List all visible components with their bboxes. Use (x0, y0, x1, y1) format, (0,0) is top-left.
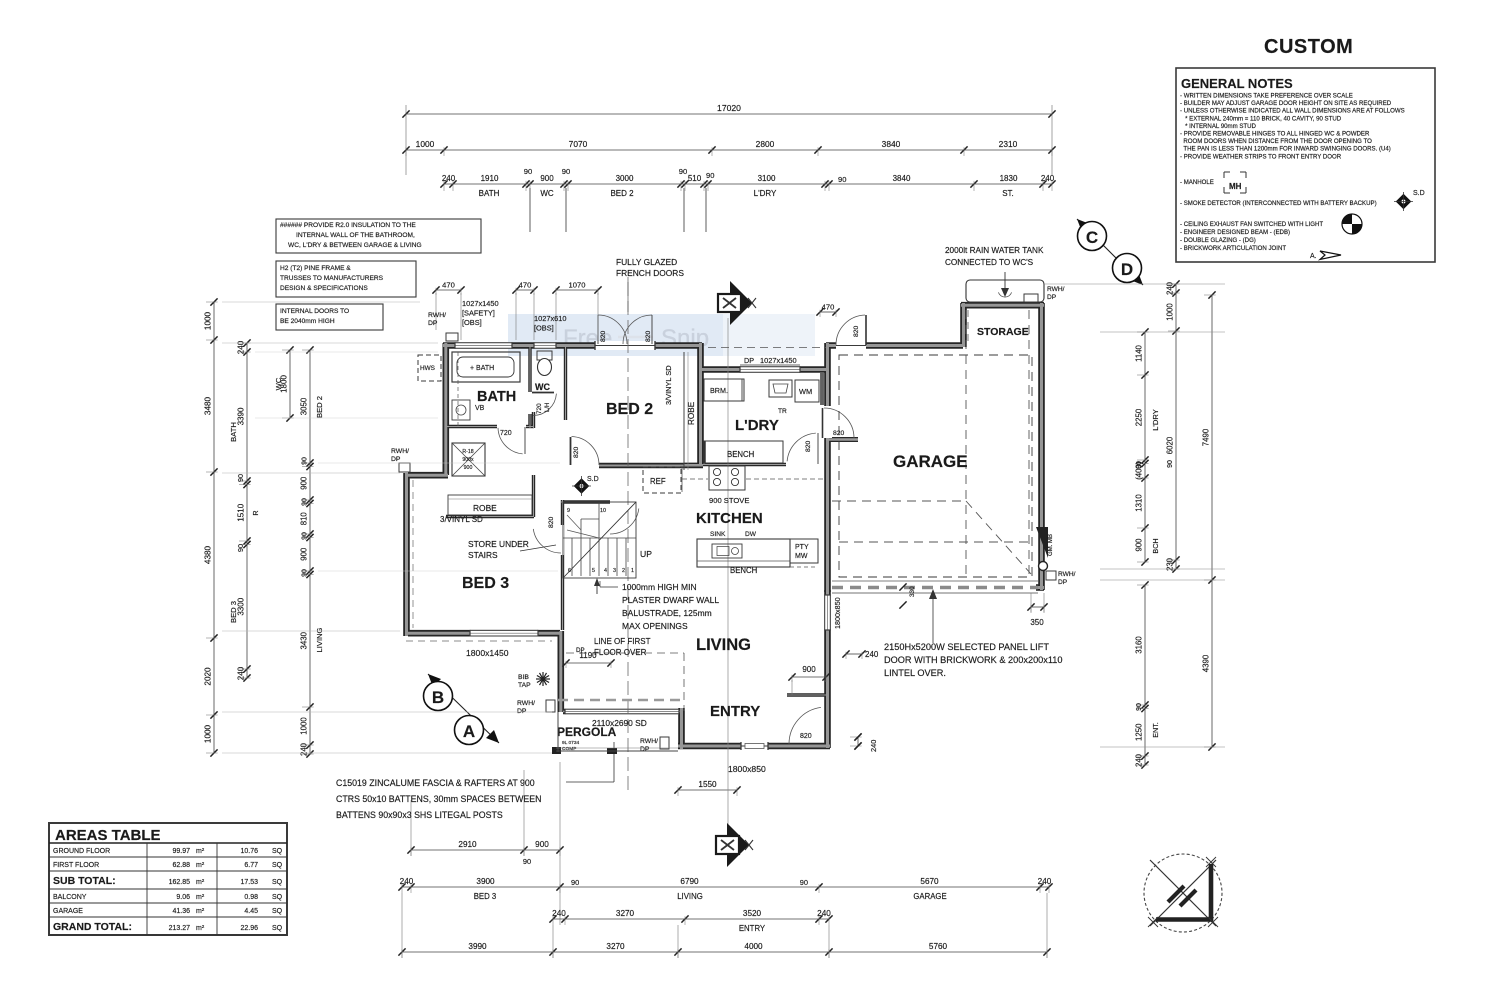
kitchen pantry PTY MW (790, 539, 818, 563)
svg-text:ROBE: ROBE (473, 503, 497, 513)
svg-text:WM: WM (799, 387, 812, 396)
svg-text:10: 10 (600, 508, 606, 514)
svg-text:m²: m² (196, 848, 205, 855)
svg-text:- MANHOLE: - MANHOLE (1180, 179, 1214, 186)
svg-text:BENCH: BENCH (727, 450, 754, 459)
section line vertical through entry (727, 318, 729, 830)
svg-text:1027x610: 1027x610 (534, 314, 566, 323)
svg-text:900: 900 (802, 665, 816, 674)
svg-text:STORAGE: STORAGE (977, 326, 1029, 338)
svg-text:820: 820 (573, 446, 580, 458)
svg-text:[OBS]: [OBS] (534, 324, 554, 333)
svg-text:3840: 3840 (893, 174, 911, 183)
svg-text:1910: 1910 (481, 174, 499, 183)
svg-text:- BUILDER MAY ADJUST GARAGE DO: - BUILDER MAY ADJUST GARAGE DOOR HEIGHT … (1180, 100, 1392, 107)
svg-text:RWH/: RWH/ (640, 738, 658, 745)
entry door opening (741, 742, 768, 750)
svg-text:BENCH: BENCH (730, 566, 757, 575)
dimension 17020 overall top (406, 113, 1052, 115)
svg-text:2250: 2250 (1135, 408, 1144, 426)
svg-text:LIVING: LIVING (696, 636, 751, 654)
svg-text:FULLY GLAZED: FULLY GLAZED (616, 257, 677, 267)
svg-text:1000: 1000 (300, 717, 309, 735)
svg-text:B: B (432, 688, 444, 707)
shower 900x900 (452, 443, 485, 476)
kitchen REF (643, 467, 681, 493)
svg-text:BED 3: BED 3 (474, 892, 497, 901)
svg-text:CUSTOM: CUSTOM (1264, 36, 1353, 58)
bottom dim 3900/6790/5670 BED3 LIVING GARAGE (402, 886, 1049, 888)
svg-text:4390: 4390 (1202, 654, 1211, 672)
svg-text:BATH: BATH (479, 189, 500, 198)
svg-text:CONNECTED TO WC'S: CONNECTED TO WC'S (945, 258, 1034, 267)
svg-text:240: 240 (1135, 753, 1144, 767)
svg-text:4000: 4000 (744, 942, 763, 951)
svg-text:C: C (1086, 228, 1098, 247)
section marker bottom (727, 823, 749, 867)
svg-text:470: 470 (442, 281, 455, 290)
svg-text:BED 2: BED 2 (315, 396, 324, 418)
svg-text:350: 350 (1030, 618, 1044, 627)
svg-text:4.45: 4.45 (244, 908, 258, 915)
svg-text:- PROVIDE WEATHER STRIPS TO FR: - PROVIDE WEATHER STRIPS TO FRONT ENTRY … (1180, 153, 1342, 160)
wall living return stub (443, 342, 702, 349)
svg-text:2110x2690 SD: 2110x2690 SD (592, 718, 647, 728)
svg-text:H2 (T2) PINE FRAME &: H2 (T2) PINE FRAME & (280, 265, 351, 272)
svg-text:1830: 1830 (1000, 174, 1018, 183)
svg-text:90: 90 (523, 857, 531, 866)
svg-text:3160: 3160 (1135, 636, 1144, 654)
svg-text:A: A (463, 722, 475, 741)
svg-text:90: 90 (302, 498, 309, 506)
svg-text:2000lt RAIN WATER TANK: 2000lt RAIN WATER TANK (945, 246, 1044, 255)
svg-text:900: 900 (300, 547, 309, 561)
svg-text:6: 6 (568, 568, 571, 574)
garage meter box (1036, 527, 1048, 558)
svg-text:UP: UP (640, 549, 652, 559)
svg-text:1000: 1000 (1166, 303, 1175, 321)
svg-text:7070: 7070 (569, 139, 588, 149)
svg-text:RWH/: RWH/ (517, 700, 535, 707)
svg-text:m²: m² (196, 862, 205, 869)
svg-text:LINTEL OVER.: LINTEL OVER. (884, 668, 946, 678)
svg-text:5670: 5670 (920, 877, 939, 886)
svg-text:* INTERNAL 90mm STUD: * INTERNAL 90mm STUD (1180, 123, 1257, 130)
svg-text:240: 240 (237, 666, 246, 680)
svg-text:+ BATH: + BATH (470, 365, 494, 372)
svg-text:GRAND TOTAL:: GRAND TOTAL: (53, 921, 132, 933)
left dim chain 3050/90/900/90/810/90/900/90/3430/1000/240 (309, 350, 311, 754)
svg-text:240: 240 (300, 742, 309, 756)
svg-text:1140: 1140 (1135, 344, 1144, 361)
svg-text:720: 720 (536, 403, 543, 414)
svg-text:900: 900 (535, 840, 549, 849)
svg-text:A.: A. (1310, 253, 1317, 260)
svg-text:- DOUBLE GLAZING - (DG): - DOUBLE GLAZING - (DG) (1180, 237, 1256, 244)
svg-text:SINK: SINK (710, 531, 726, 538)
svg-text:90: 90 (1136, 703, 1143, 711)
right dim chain 1140/2250/90/(400)/1310/900 (1144, 332, 1146, 562)
svg-text:R: R (251, 510, 260, 515)
svg-text:22.96: 22.96 (240, 925, 258, 932)
svg-text:213.27: 213.27 (169, 925, 191, 932)
svg-text:1550: 1550 (698, 780, 717, 789)
svg-text:L/H: L/H (545, 403, 551, 412)
svg-text:470: 470 (519, 281, 532, 290)
svg-text:m²: m² (196, 925, 205, 932)
svg-text:GENERAL NOTES: GENERAL NOTES (1181, 76, 1293, 91)
garage panel door line (832, 586, 1038, 589)
svg-text:- SMOKE DETECTOR (INTERCONNECT: - SMOKE DETECTOR (INTERCONNECTED WITH BA… (1180, 200, 1377, 207)
ldry bench (704, 441, 783, 463)
svg-text:PTY: PTY (795, 544, 809, 551)
svg-text:DP: DP (1058, 579, 1068, 586)
robe bed3 shelf (448, 495, 532, 515)
pergola outline (557, 712, 559, 752)
svg-text:900: 900 (300, 476, 309, 490)
svg-text:3270: 3270 (616, 909, 635, 918)
svg-text:MW: MW (795, 553, 808, 560)
svg-text:820: 820 (548, 516, 555, 528)
svg-text:GARAGE: GARAGE (913, 892, 946, 901)
svg-text:1000: 1000 (416, 139, 435, 149)
rain water tank (966, 280, 1044, 302)
window wc 1027x610 (534, 342, 556, 349)
svg-text:BRM.: BRM. (710, 386, 728, 395)
svg-text:ENTRY: ENTRY (739, 924, 766, 933)
svg-text:90: 90 (571, 878, 579, 887)
right dim chain 7490/4390 (1211, 295, 1213, 747)
svg-text:820: 820 (645, 330, 652, 342)
svg-text:GARAGE: GARAGE (893, 452, 968, 471)
svg-text:- WRITTEN DIMENSIONS TAKE PREF: - WRITTEN DIMENSIONS TAKE PREFERENCE OVE… (1180, 93, 1353, 100)
door bed3 820 (559, 525, 564, 555)
right dim chain 3160/90/1250/240 lower (1144, 585, 1146, 765)
note box internal doors (276, 304, 383, 330)
svg-text:STAIRS: STAIRS (468, 550, 498, 560)
svg-text:2910: 2910 (458, 840, 477, 849)
svg-text:10.76: 10.76 (240, 848, 258, 855)
vanity bath (452, 400, 470, 420)
svg-text:3270: 3270 (606, 942, 625, 951)
svg-text:9.06: 9.06 (176, 894, 190, 901)
french door arcs (598, 315, 627, 344)
svg-text:RWH/: RWH/ (1047, 286, 1065, 293)
door bath 720 (498, 428, 523, 454)
svg-text:BATTENS 90x90x3 SHS LITEGAL PO: BATTENS 90x90x3 SHS LITEGAL POSTS (336, 810, 503, 820)
svg-text:1510: 1510 (237, 503, 246, 521)
svg-text:240: 240 (237, 340, 246, 354)
svg-text:m²: m² (196, 894, 205, 901)
svg-text:TR: TR (778, 408, 787, 415)
dim 240 living east (846, 653, 862, 655)
svg-text:90: 90 (706, 171, 714, 180)
svg-text:5: 5 (592, 568, 595, 574)
areas table (49, 823, 287, 935)
svg-text:SQ: SQ (272, 879, 283, 886)
svg-text:240: 240 (869, 740, 878, 752)
svg-text:- CEILING EXHAUST FAN SWITCHED: - CEILING EXHAUST FAN SWITCHED WITH LIGH… (1180, 221, 1323, 228)
svg-text:SQ: SQ (272, 925, 283, 932)
svg-text:2800: 2800 (756, 139, 775, 149)
door wc 720 (532, 392, 554, 394)
svg-text:SQ: SQ (272, 862, 283, 869)
svg-text:DW: DW (745, 531, 757, 538)
svg-text:1027x1450: 1027x1450 (462, 299, 499, 308)
extension lines left (222, 301, 420, 303)
kitchen stove (709, 466, 745, 490)
bath tub (452, 352, 520, 382)
svg-text:7490: 7490 (1202, 428, 1211, 446)
svg-text:3430: 3430 (300, 631, 309, 649)
svg-text:90: 90 (1167, 460, 1174, 468)
svg-text:INTERNAL DOORS TO: INTERNAL DOORS TO (280, 308, 349, 315)
svg-text:DP: DP (744, 356, 754, 365)
svg-text:C15019 ZINCALUME FASCIA & RAFT: C15019 ZINCALUME FASCIA & RAFTERS AT 900 (336, 778, 535, 788)
sliding door pergola 2110x2690 (565, 709, 679, 714)
svg-text:1800x850: 1800x850 (728, 764, 766, 774)
svg-text:3900: 3900 (476, 877, 495, 886)
svg-text:330: 330 (909, 586, 916, 597)
window ldry 1027x1450 (740, 366, 800, 373)
svg-text:900: 900 (464, 465, 473, 471)
svg-text:820: 820 (805, 440, 812, 452)
svg-text:90: 90 (1136, 461, 1143, 469)
extension lines right (1100, 283, 1225, 285)
svg-text:R-18: R-18 (462, 449, 473, 455)
svg-text:SQ: SQ (272, 908, 283, 915)
svg-text:WC: WC (274, 377, 283, 390)
svg-text:BALUSTRADE, 125mm: BALUSTRADE, 125mm (622, 608, 712, 618)
svg-text:99.97: 99.97 (172, 848, 190, 855)
svg-text:470: 470 (822, 303, 835, 312)
svg-text:4: 4 (604, 568, 607, 574)
north arrow compass (1144, 854, 1222, 932)
svg-text:FRENCH DOORS: FRENCH DOORS (616, 268, 684, 278)
smoke detector symbol plan (574, 478, 590, 494)
dimension row 240/1910/90/900/90/3000/90/510/90/3100/90/3840/1830/240 (444, 183, 1052, 185)
svg-text:DP: DP (428, 320, 438, 327)
svg-text:820: 820 (853, 325, 860, 337)
svg-text:[OBS]: [OBS] (462, 318, 482, 327)
svg-text:REF: REF (650, 477, 666, 486)
dimension row 1000/7070/2800/3840/2310 (406, 149, 1052, 151)
svg-text:WC: WC (535, 382, 550, 392)
svg-text:RWH/: RWH/ (428, 312, 446, 319)
svg-text:17.53: 17.53 (240, 879, 258, 886)
svg-text:m²: m² (196, 879, 205, 886)
svg-text:BALCONY: BALCONY (53, 894, 87, 901)
bottom dim 2910/900 (411, 849, 560, 851)
svg-text:1070: 1070 (569, 281, 586, 290)
right dim chain 240/1000/6020/230 (1175, 284, 1177, 569)
svg-text:6020: 6020 (1166, 436, 1175, 454)
svg-text:3100: 3100 (758, 174, 776, 183)
svg-text:L'DRY: L'DRY (1151, 409, 1160, 431)
svg-text:SUB TOTAL:: SUB TOTAL: (53, 875, 116, 887)
svg-text:BCH: BCH (1151, 538, 1160, 553)
svg-text:900 STOVE: 900 STOVE (709, 496, 749, 505)
svg-text:240: 240 (400, 877, 414, 886)
svg-text:90: 90 (302, 532, 309, 540)
svg-text:3: 3 (613, 568, 616, 574)
svg-text:ROBE: ROBE (687, 401, 696, 425)
svg-text:GARAGE: GARAGE (53, 908, 83, 915)
svg-text:2020: 2020 (204, 667, 213, 686)
svg-text:L'DRY: L'DRY (754, 189, 777, 198)
svg-text:3/VINYL SD: 3/VINYL SD (664, 365, 673, 405)
svg-text:MAX OPENINGS: MAX OPENINGS (622, 621, 688, 631)
section B/A circles (428, 674, 499, 743)
svg-text:17020: 17020 (717, 103, 741, 113)
svg-text:ST.: ST. (1002, 189, 1014, 198)
general notes box (1176, 68, 1435, 262)
svg-text:90: 90 (302, 569, 309, 577)
svg-text:MH: MH (1229, 182, 1242, 191)
svg-text:BED 2: BED 2 (610, 189, 634, 198)
svg-text:90: 90 (800, 878, 808, 887)
dim 900 living stub (792, 676, 826, 678)
door entry 820 arc (789, 707, 821, 744)
svg-text:2: 2 (622, 568, 625, 574)
svg-text:820: 820 (600, 330, 607, 342)
svg-text:240: 240 (1038, 877, 1052, 886)
svg-text:90: 90 (562, 167, 570, 176)
left dim mini chain 1800 WC (289, 350, 291, 418)
svg-text:BED 2: BED 2 (606, 401, 653, 418)
svg-text:WC, L'DRY & BETWEEN GARAGE & L: WC, L'DRY & BETWEEN GARAGE & LIVING (288, 242, 422, 249)
svg-text:ENTRY: ENTRY (710, 703, 760, 720)
svg-text:900: 900 (540, 174, 554, 183)
svg-text:STORE UNDER: STORE UNDER (468, 539, 529, 549)
svg-text:6.77: 6.77 (244, 862, 258, 869)
first floor line over ldry dashed (708, 347, 826, 349)
hws unit (418, 355, 441, 381)
svg-text:DP: DP (640, 746, 650, 753)
svg-text:DP: DP (391, 456, 401, 463)
door bed2 820 (570, 437, 572, 465)
svg-text:1310: 1310 (1135, 494, 1144, 512)
svg-text:BE 2040mm HIGH: BE 2040mm HIGH (280, 318, 335, 325)
svg-text:AREAS TABLE: AREAS TABLE (55, 827, 161, 844)
svg-text:1000mm HIGH MIN: 1000mm HIGH MIN (622, 582, 697, 592)
svg-text:3480: 3480 (204, 396, 213, 415)
svg-text:* EXTERNAL 240mm = 110 BRICK,: * EXTERNAL 240mm = 110 BRICK, 40 CAVITY,… (1180, 115, 1342, 122)
svg-text:90: 90 (236, 474, 245, 482)
svg-text:[SAFETY]: [SAFETY] (462, 309, 495, 318)
kitchen island bench (697, 539, 790, 567)
svg-text:FIRST FLOOR: FIRST FLOOR (53, 862, 99, 869)
svg-text:WC: WC (540, 189, 554, 198)
svg-text:1000: 1000 (204, 724, 213, 743)
door ldry kitchen arc 820 (787, 433, 816, 461)
door garage top 470+820 (836, 342, 866, 350)
svg-text:1000: 1000 (204, 311, 213, 330)
svg-text:###### PROVIDE R2.0 INSULATION: ###### PROVIDE R2.0 INSULATION TO THE (280, 222, 416, 229)
svg-text:- BRICKWORK ARTICULATION JOINT: - BRICKWORK ARTICULATION JOINT (1180, 245, 1286, 252)
svg-text:900: 900 (1135, 538, 1144, 552)
svg-text:INTERNAL WALL OF THE BATHROOM,: INTERNAL WALL OF THE BATHROOM, (296, 232, 415, 239)
svg-text:3520: 3520 (743, 909, 762, 918)
svg-text:1800x850: 1800x850 (833, 597, 842, 629)
section C/D circles (1077, 219, 1143, 285)
ldry fixtures (704, 379, 744, 401)
dimension 350 garage (1031, 606, 1044, 608)
svg-text:CTRS 50x10 BATTENS, 30mm SPACE: CTRS 50x10 BATTENS, 30mm SPACES BETWEEN (336, 794, 541, 804)
svg-text:LIVING: LIVING (677, 892, 703, 901)
svg-text:810: 810 (300, 512, 309, 526)
bed3 eave dashed (412, 480, 414, 628)
svg-text:41.36: 41.36 (172, 908, 190, 915)
note box insulation (276, 219, 481, 253)
svg-text:3990: 3990 (468, 942, 487, 951)
svg-text:240: 240 (865, 650, 879, 659)
svg-text:240: 240 (442, 174, 456, 183)
left dim chain 1000/3480/4380/2020/1000 (213, 302, 215, 753)
svg-text:BED 3: BED 3 (229, 601, 238, 623)
svg-text:3050: 3050 (300, 397, 309, 415)
svg-text:m²: m² (196, 908, 205, 915)
garage rwh/dp bottom (1046, 571, 1056, 580)
svg-text:ENT.: ENT. (1151, 722, 1160, 738)
svg-text:4380: 4380 (204, 545, 213, 564)
svg-text:BIB: BIB (518, 674, 529, 681)
note box pine frame (276, 261, 416, 297)
svg-text:GM. MB: GM. MB (1048, 534, 1054, 556)
svg-text:TRUSSES TO MANUFACTURERS: TRUSSES TO MANUFACTURERS (280, 275, 384, 282)
svg-text:2150Hx5200W SELECTED PANEL LIF: 2150Hx5200W SELECTED PANEL LIFT (884, 642, 1049, 652)
bottom dim 240/3270/3520/240 ENTRY (553, 918, 829, 920)
bottom dim 3990/3270/4000/5760 (402, 951, 1047, 953)
svg-text:LINE OF FIRST: LINE OF FIRST (594, 637, 651, 646)
svg-text:240: 240 (552, 909, 566, 918)
svg-text:DOOR WITH BRICKWORK & 200x200x: DOOR WITH BRICKWORK & 200x200x110 (884, 655, 1063, 665)
robe bed2 band (683, 352, 685, 470)
svg-text:1027x1450: 1027x1450 (760, 356, 797, 365)
svg-text:90: 90 (524, 167, 532, 176)
svg-text:9: 9 (567, 508, 570, 514)
svg-text:DP: DP (517, 708, 527, 715)
svg-text:PLASTER DWARF WALL: PLASTER DWARF WALL (622, 595, 719, 605)
svg-text:BATH: BATH (229, 422, 238, 442)
kitchen bench line dashed (682, 478, 708, 480)
door garage-side 820 (823, 406, 832, 438)
dim 240 entry right (857, 737, 859, 746)
svg-text:- PROVIDE REMOVABLE HINGES TO: - PROVIDE REMOVABLE HINGES TO ALL HINGED… (1180, 131, 1370, 138)
svg-text:KITCHEN: KITCHEN (696, 510, 763, 527)
svg-text:240: 240 (817, 909, 831, 918)
svg-text:HWS: HWS (420, 365, 435, 372)
window bath 1027x1450 (455, 342, 512, 349)
dims 470/470/1070 top-left (436, 289, 461, 291)
svg-text:D: D (1121, 260, 1133, 279)
svg-text:RWH/: RWH/ (1058, 571, 1076, 578)
svg-text:VB: VB (475, 405, 485, 412)
svg-text:3/VINYL SD: 3/VINYL SD (440, 515, 483, 524)
bottom dim 1550 entry (678, 789, 737, 791)
svg-text:S.D: S.D (587, 476, 599, 483)
french doors opening (595, 341, 655, 350)
svg-text:5760: 5760 (929, 942, 948, 951)
window bed3 1800x1450 (470, 630, 538, 637)
svg-text:62.88: 62.88 (172, 862, 190, 869)
svg-text:90: 90 (679, 167, 687, 176)
svg-text:9L 0734: 9L 0734 (562, 740, 579, 746)
svg-text:FLOOR OVER: FLOOR OVER (594, 648, 647, 657)
watermark band (508, 314, 815, 356)
svg-text:RWH/: RWH/ (391, 448, 409, 455)
tank rwh/dp (1024, 294, 1038, 302)
